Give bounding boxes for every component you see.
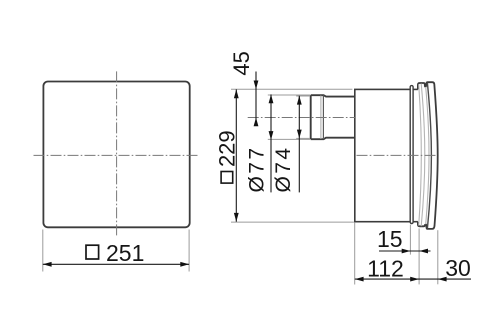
cover inner curve a (419, 84, 422, 225)
extension lines spigot diameters top (268, 94, 310, 96)
extension line left of dim 251 (42, 230, 44, 272)
bottom connector flange to cover (413, 221, 418, 223)
svg-text:45: 45 (229, 51, 254, 75)
spigot top edge (311, 95, 355, 96)
dimension line diameter 77 (270, 94, 272, 192)
main centerline side view (357, 154, 438, 156)
square symbol of label 251 (86, 245, 99, 259)
dimension line 15 (379, 250, 431, 252)
side view cover outline (418, 82, 438, 229)
square symbol of label 229 (221, 172, 233, 184)
dimension line 229 (235, 89, 237, 221)
spigot bead dark line (322, 95, 324, 139)
cover inner curve b (421, 84, 425, 227)
spigot bottom edge (311, 138, 355, 140)
svg-text:Ø74: Ø74 (272, 146, 295, 193)
extension line housing top for dims 45 and 229 (231, 88, 352, 90)
svg-text:Ø77: Ø77 (246, 146, 269, 193)
svg-text:251: 251 (106, 240, 144, 266)
extension line housing bottom for dim 229 (231, 221, 354, 223)
dimension line diameter 74 (298, 96, 300, 193)
cover inner curve c (426, 87, 429, 224)
extension line cover back edge (418, 228, 420, 284)
dimension line 112 and 30 (355, 278, 471, 280)
front view vertical centerline (116, 71, 118, 237)
extension lines spigot diameters bottom (268, 138, 310, 140)
svg-text:112: 112 (367, 255, 404, 281)
extension line cover front edge (437, 230, 439, 284)
extension line housing back edge (354, 223, 356, 285)
spigot bead light line (320, 95, 322, 139)
svg-text:15: 15 (377, 226, 403, 252)
dimension line 45 (255, 72, 257, 126)
front view horizontal centerline (34, 154, 200, 156)
spigot centerline (248, 117, 355, 119)
extension line housing front edge (409, 225, 411, 255)
top connector flange to cover (413, 88, 418, 90)
cover inner curve d (427, 83, 431, 229)
svg-text:229: 229 (215, 130, 240, 167)
dimension line 251 (43, 263, 189, 265)
side view front flange bar (410, 86, 413, 224)
svg-text:30: 30 (445, 255, 471, 281)
spigot left end cap (310, 95, 312, 139)
extension line right of dim 251 (188, 230, 190, 272)
front view square cover (43, 82, 189, 228)
side view housing box (355, 89, 411, 221)
